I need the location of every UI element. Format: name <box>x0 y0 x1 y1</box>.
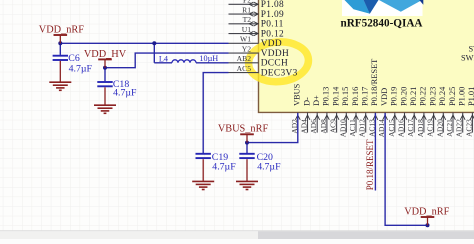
junction VDD_nRF bottom <box>426 223 430 227</box>
wire DEC3V3 to C19 <box>203 73 228 153</box>
svg-text:AD12: AD12 <box>358 119 367 137</box>
svg-text:4.7µF: 4.7µF <box>257 162 281 173</box>
wire C6 to rail <box>59 43 61 55</box>
svg-text:AC23: AC23 <box>464 119 473 137</box>
pin Y2 (VDDH) left side <box>229 44 290 59</box>
svg-text:AD18: AD18 <box>416 119 425 137</box>
ground (C18) <box>94 87 116 113</box>
junction rail / DCC drop <box>152 41 156 45</box>
svg-text:P0.21: P0.21 <box>409 87 418 106</box>
junction VDD_HV / C18 <box>103 66 107 70</box>
pin AC17 (P0.21) bottom side <box>406 87 418 137</box>
svg-text:P1.08: P1.08 <box>261 0 284 10</box>
pin AB2 (DCCH) left side <box>229 54 289 68</box>
power port VDD_HV <box>84 49 127 68</box>
pin AD8 (P0.13) bottom side <box>319 87 331 134</box>
svg-text:4.7µF: 4.7µF <box>69 63 93 74</box>
horizontal scrollbar <box>0 231 474 240</box>
wire VDD_HV to VDDH pin <box>105 53 229 68</box>
svg-text:AC5: AC5 <box>237 64 252 73</box>
svg-text:AC19: AC19 <box>426 119 435 137</box>
svg-text:P0.20: P0.20 <box>399 87 408 106</box>
pin AD4 (D-) bottom side <box>300 97 312 134</box>
svg-text:AD22: AD22 <box>455 119 464 137</box>
capacitor C20 4.7µF <box>239 152 281 173</box>
svg-text:SWDCLK: SWDCLK <box>461 53 474 62</box>
pin AD22 (P1.00) bottom side <box>455 87 467 138</box>
svg-text:P1.09: P1.09 <box>261 10 284 20</box>
svg-text:P1.01: P1.01 <box>467 87 474 106</box>
svg-text:VBUS_nRF: VBUS_nRF <box>218 124 269 135</box>
svg-text:DEC3V3: DEC3V3 <box>261 68 298 78</box>
pin AD6 (D+) bottom side <box>309 95 321 134</box>
pin AC9 (P0.14) bottom side <box>329 86 341 133</box>
power port VDD_nRF (top) <box>39 24 84 43</box>
pin P2 (P1.08) left side <box>229 0 285 10</box>
svg-text:P0.15: P0.15 <box>341 87 350 106</box>
pin AD18 (P0.22) bottom side <box>416 87 428 138</box>
svg-text:VDD_nRF: VDD_nRF <box>39 24 84 35</box>
pin AD14 (VDD) bottom side <box>377 88 389 137</box>
svg-text:P0.12: P0.12 <box>261 29 284 39</box>
pin AD12 (P0.17) bottom side <box>358 87 370 138</box>
svg-text:AD20: AD20 <box>435 119 444 137</box>
svg-text:P0.18/RESET: P0.18/RESET <box>365 139 375 190</box>
svg-text:AB2: AB2 <box>237 54 252 63</box>
svg-text:C6: C6 <box>68 53 80 64</box>
svg-text:P0.22: P0.22 <box>419 87 428 106</box>
svg-text:R1: R1 <box>242 5 251 14</box>
IC U1 nRF52840-QIAA body <box>259 0 474 112</box>
wire P0.18/RESET stub <box>374 113 376 191</box>
svg-text:VBUS: VBUS <box>293 83 302 106</box>
pin AD10 (P0.15) bottom side <box>338 87 350 138</box>
svg-text:AC21: AC21 <box>445 119 454 137</box>
junction VBUS / C20 <box>245 141 249 145</box>
svg-text:AC15: AC15 <box>387 119 396 137</box>
wire VBUS pin to VBUS_nRF node <box>247 113 298 143</box>
wire bottom VDD pin to VDD_nRF <box>385 113 427 225</box>
svg-text:VDD: VDD <box>380 88 389 106</box>
ground (C20) <box>236 159 258 189</box>
svg-text:P0.19: P0.19 <box>390 87 399 106</box>
svg-text:D+: D+ <box>312 95 321 106</box>
svg-text:VDD_HV: VDD_HV <box>84 49 127 60</box>
svg-text:P0.17: P0.17 <box>361 87 370 106</box>
svg-text:P0.23: P0.23 <box>428 87 437 106</box>
Nordic Semiconductor logo <box>342 0 423 16</box>
pin AC11 (P0.16) bottom side <box>348 87 360 137</box>
pin AC15 (P0.19) bottom side <box>387 87 399 137</box>
svg-text:U1: U1 <box>242 25 251 34</box>
pin R1 (P1.09) left side <box>229 5 285 20</box>
power port VDD_nRF (bottom) <box>404 206 449 225</box>
svg-text:L4: L4 <box>159 54 168 63</box>
svg-text:AC11: AC11 <box>348 119 357 137</box>
svg-text:VDD_nRF: VDD_nRF <box>404 206 449 217</box>
svg-text:P0.18/RESET: P0.18/RESET <box>370 59 379 106</box>
svg-text:P0.13: P0.13 <box>322 87 331 106</box>
svg-text:P0.25: P0.25 <box>448 87 457 106</box>
svg-text:4.7µF: 4.7µF <box>212 162 236 173</box>
svg-text:SWDIO: SWDIO <box>469 44 474 53</box>
inductor L4 <box>159 54 218 63</box>
svg-text:P1.00: P1.00 <box>458 87 467 106</box>
svg-text:T2: T2 <box>243 15 252 24</box>
svg-text:AD6: AD6 <box>309 119 318 134</box>
junction VDD rail / C6 <box>58 41 62 45</box>
svg-text:DCCH: DCCH <box>261 59 288 69</box>
wire L4 to DCCH pin <box>196 62 229 64</box>
svg-text:AD10: AD10 <box>338 119 347 137</box>
pin AC23 (P1.01) bottom side <box>464 87 474 137</box>
wire C18 to VDD_HV node <box>104 68 106 82</box>
pin AD2 (VBUS) bottom side <box>290 83 302 133</box>
capacitor C6 4.7µF <box>53 53 93 74</box>
pin AC21 (P0.25) bottom side <box>445 87 457 137</box>
pin T2 (P0.11) left side <box>229 15 284 30</box>
svg-text:P0.24: P0.24 <box>438 86 447 106</box>
wire rail junction to L4 <box>154 62 172 64</box>
pin AC13 (P0.18/RESET) bottom side <box>367 59 379 137</box>
pin W1 (VDD) left side <box>229 35 283 50</box>
svg-text:AD8: AD8 <box>319 119 328 134</box>
svg-text:P0.11: P0.11 <box>261 20 284 30</box>
svg-text:AC17: AC17 <box>406 119 415 137</box>
ground (C6) <box>49 61 71 90</box>
wire VDD rail <box>60 42 228 44</box>
svg-text:Y2: Y2 <box>242 44 251 53</box>
pin AD16 (P0.20) bottom side <box>397 87 409 138</box>
svg-text:10µH: 10µH <box>199 54 218 63</box>
svg-text:VDD: VDD <box>261 39 282 49</box>
svg-text:nRF52840-QIAA: nRF52840-QIAA <box>340 17 422 29</box>
svg-text:P0.14: P0.14 <box>331 86 340 106</box>
svg-text:AC9: AC9 <box>329 119 338 133</box>
svg-text:D-: D- <box>302 97 311 106</box>
svg-text:4.7µF: 4.7µF <box>113 88 137 99</box>
highlight marker around power pins <box>247 39 310 84</box>
wire DCC drop from rail <box>153 43 155 63</box>
capacitor C19 4.7µF <box>196 152 237 173</box>
pin AC19 (P0.23) bottom side <box>426 87 438 137</box>
ground (C19) <box>192 159 214 189</box>
power port VBUS_nRF <box>218 124 269 143</box>
svg-text:AD16: AD16 <box>397 119 406 137</box>
svg-text:AD4: AD4 <box>300 119 309 134</box>
capacitor C18 4.7µF <box>97 79 137 98</box>
svg-text:P0.16: P0.16 <box>351 87 360 106</box>
wire C20 stub <box>246 143 248 153</box>
pin AC5 (DEC3V3) left side <box>229 64 298 79</box>
svg-text:VDDH: VDDH <box>261 49 289 59</box>
svg-text:W1: W1 <box>240 35 251 44</box>
pin U1 (P0.12) left side <box>229 25 285 40</box>
pin AD20 (P0.24) bottom side <box>435 86 447 137</box>
